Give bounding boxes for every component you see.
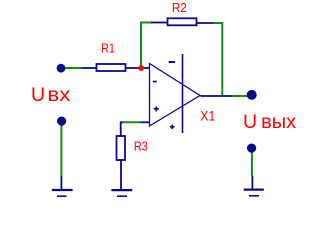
svg-text:R3: R3 (134, 138, 148, 153)
svg-text:U: U (243, 111, 257, 133)
svg-text:вых: вых (261, 111, 296, 133)
svg-text:R2: R2 (172, 0, 187, 15)
svg-text:X1: X1 (200, 108, 215, 123)
svg-text:R1: R1 (101, 41, 115, 56)
svg-text:U: U (31, 84, 45, 106)
svg-text:вх: вх (47, 84, 70, 106)
